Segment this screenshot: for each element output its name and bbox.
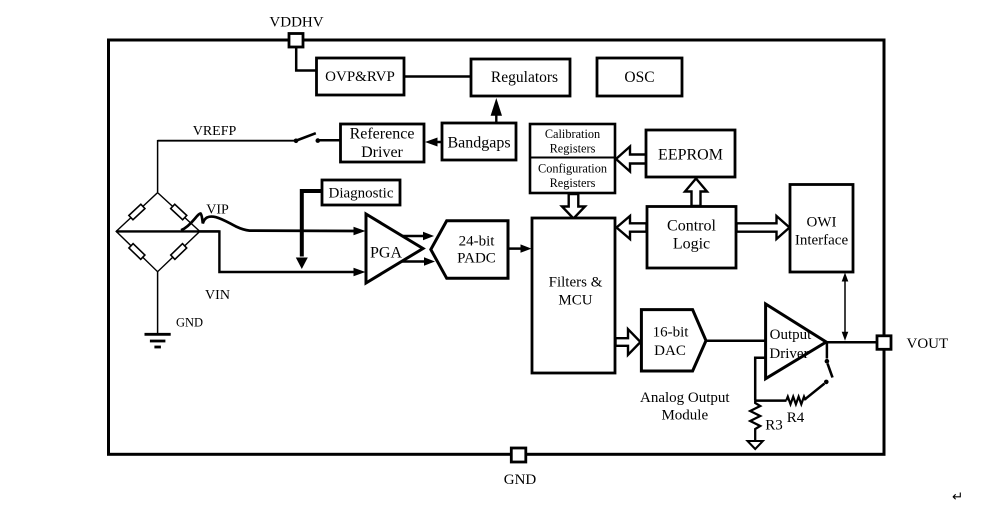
VREFP wire xyxy=(158,140,294,142)
switch S2 lever xyxy=(828,364,833,378)
svg-text:VDDHV: VDDHV xyxy=(269,15,323,31)
svg-text:GND: GND xyxy=(504,472,537,488)
svg-text:16-bit: 16-bit xyxy=(653,325,690,341)
box Calibration Registers xyxy=(530,124,615,193)
svg-text:Registers: Registers xyxy=(550,176,596,190)
wire DAC to Output Driver xyxy=(706,340,766,343)
arrow Diagnostic down xyxy=(296,258,308,270)
svg-text:Reference: Reference xyxy=(350,126,415,143)
svg-text:Filters &: Filters & xyxy=(549,275,603,291)
svg-text:Regulators: Regulators xyxy=(491,69,558,86)
ground arrow under R3 xyxy=(748,441,763,449)
arrow PGA out lower xyxy=(402,260,425,263)
svg-text:Logic: Logic xyxy=(673,236,710,253)
pin pad GND xyxy=(511,448,526,462)
bridge resistor bottom-right xyxy=(171,244,187,260)
box Filters & MCU xyxy=(532,218,615,373)
hollow arrow Registers to Filters & MCU xyxy=(562,194,585,219)
switch S1 lever xyxy=(297,133,316,140)
bridge sensor diamond xyxy=(116,193,200,272)
bridge center line xyxy=(116,230,219,232)
wire switch to R4 xyxy=(806,384,825,399)
svg-text:EEPROM: EEPROM xyxy=(658,147,723,164)
box EEPROM xyxy=(646,130,735,177)
svg-text:OWI: OWI xyxy=(807,215,837,231)
wire OVP&RVP to Regulators xyxy=(404,75,471,78)
svg-text:Driver: Driver xyxy=(361,144,403,161)
feedback wire to driver input xyxy=(755,358,766,401)
chip boundary xyxy=(109,40,885,454)
wire R4 to node xyxy=(755,399,786,402)
pin pad VDDHV xyxy=(289,34,303,48)
svg-text:Output: Output xyxy=(770,327,813,343)
wire switch to Reference Driver xyxy=(319,139,341,142)
svg-text:R3: R3 xyxy=(765,418,783,434)
svg-text:DAC: DAC xyxy=(654,343,686,359)
arrow PGA out upper xyxy=(402,235,424,238)
double arrow OWI to VOUT wire xyxy=(844,279,846,335)
svg-text:VOUT: VOUT xyxy=(907,336,949,352)
svg-text:Driver: Driver xyxy=(769,346,808,362)
wire VIN xyxy=(200,231,357,272)
svg-text:Control: Control xyxy=(667,218,716,235)
box OVP&RVP xyxy=(317,58,405,95)
op-amp Output Driver xyxy=(766,304,827,379)
hollow arrow Control Logic to Filters xyxy=(617,216,647,239)
svg-text:GND: GND xyxy=(176,316,203,330)
arrow Bandgaps to Reference Driver xyxy=(434,141,442,144)
svg-text:MCU: MCU xyxy=(558,293,592,309)
pin pad VOUT xyxy=(877,336,891,350)
wire Output Driver to VOUT xyxy=(826,341,878,344)
box Diagnostic xyxy=(322,180,400,205)
hollow arrow Control Logic to OWI xyxy=(737,216,790,239)
svg-text:Bandgaps: Bandgaps xyxy=(447,135,510,152)
bridge ground stem xyxy=(157,272,159,334)
svg-text:↵: ↵ xyxy=(952,489,963,504)
ground symbol xyxy=(145,333,171,336)
bridge resistor top-left xyxy=(129,204,145,220)
resistor R4 xyxy=(786,397,805,405)
svg-text:VIN: VIN xyxy=(205,288,230,303)
wire Diagnostic thick xyxy=(302,191,322,257)
switch S2 upper dot xyxy=(825,359,830,364)
svg-text:Registers: Registers xyxy=(550,142,596,156)
arrow VIP into PGA xyxy=(354,227,366,235)
bridge resistor bottom-left xyxy=(129,244,145,260)
feedback stub from output xyxy=(826,344,829,359)
arrow PADC to Filters xyxy=(509,247,524,250)
DAC 16-bit xyxy=(641,310,706,371)
box Reference Driver xyxy=(341,124,425,162)
svg-text:Calibration: Calibration xyxy=(545,127,600,141)
bridge resistor top-right xyxy=(171,204,187,220)
svg-text:PADC: PADC xyxy=(457,251,496,267)
hollow arrow Filters to DAC xyxy=(616,329,641,355)
svg-text:Analog Output: Analog Output xyxy=(640,390,730,406)
svg-text:OSC: OSC xyxy=(624,69,654,86)
resistor R3 xyxy=(750,401,760,440)
box Bandgaps xyxy=(442,123,516,160)
switch S1 contact dot left xyxy=(294,139,299,144)
switch S2 lower dot xyxy=(824,380,829,385)
wire VIP squiggle xyxy=(181,213,357,231)
hollow arrow EEPROM to Registers xyxy=(616,147,647,172)
hollow arrow Control Logic to EEPROM xyxy=(685,179,707,207)
box OSC xyxy=(597,58,682,96)
svg-text:24-bit: 24-bit xyxy=(459,234,496,250)
svg-text:Interface: Interface xyxy=(795,233,849,249)
svg-text:OVP&RVP: OVP&RVP xyxy=(325,69,395,85)
svg-text:VIP: VIP xyxy=(206,203,229,218)
svg-text:VREFP: VREFP xyxy=(193,124,237,139)
svg-text:Configuration: Configuration xyxy=(538,162,607,176)
svg-text:PGA: PGA xyxy=(370,245,402,262)
wire VDDHV pad to OVP&RVP xyxy=(296,46,317,71)
op-amp PGA xyxy=(366,214,423,283)
arrow VIN into PGA xyxy=(354,268,366,276)
svg-text:Diagnostic: Diagnostic xyxy=(329,186,394,202)
ADC 24-bit PADC xyxy=(431,221,508,278)
bridge sensor top wire xyxy=(157,140,159,192)
svg-text:R4: R4 xyxy=(787,410,805,426)
svg-text:Module: Module xyxy=(661,407,708,423)
box Regulators xyxy=(471,59,570,96)
box Control Logic xyxy=(647,207,736,269)
arrow Bandgaps to Regulators xyxy=(495,112,497,123)
box OWI Interface xyxy=(790,185,853,273)
switch S1 contact dot right xyxy=(316,138,321,143)
